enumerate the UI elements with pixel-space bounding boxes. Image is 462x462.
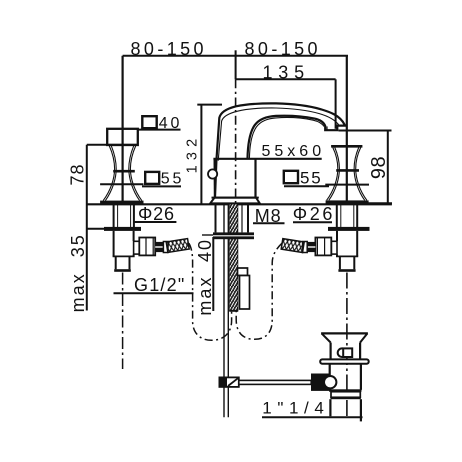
deck / counter top line [87, 203, 392, 205]
left valve hose nipple dark [155, 242, 163, 252]
left handle waist curve left inner [105, 146, 116, 201]
spout outlet inner wall [326, 126, 328, 130]
label square 55 left [145, 172, 159, 184]
right handle waist curve right outer [356, 148, 367, 201]
leader line under square55 left [142, 185, 181, 187]
drain neck walls [330, 343, 332, 360]
dim line max40 vertical [212, 237, 214, 311]
leader line under square40 [137, 129, 181, 131]
svg-text:132: 132 [185, 134, 201, 174]
extension line right handle center [346, 56, 348, 205]
spout group [208, 79, 345, 237]
drain tailpipe bottom / 1-1/4 underline [262, 416, 363, 418]
left valve shank outer walls [113, 204, 115, 227]
left handle cap [107, 129, 138, 145]
center column group below deck [202, 204, 254, 417]
leader line under square55 center [284, 185, 329, 187]
svg-text:78: 78 [68, 163, 88, 185]
right valve body walls [356, 231, 358, 257]
pop-up rod clamp [219, 377, 238, 387]
right valve hose nipple dark [307, 242, 315, 252]
label square 40 [142, 116, 156, 128]
drain tailpipe walls [329, 399, 331, 416]
right handle top bar [331, 145, 362, 148]
svg-text:G1/2": G1/2" [134, 275, 185, 295]
label square 55 center [284, 171, 298, 183]
left hose ferrule [163, 242, 168, 253]
left handle waist curve left outer [103, 146, 114, 201]
right valve body bottom step line [336, 255, 358, 257]
extension tick 135 right to spout tip [335, 79, 337, 129]
underline Phi26 right [293, 221, 332, 223]
dim tick max35 bottom (counter underside) [87, 228, 114, 230]
drain flange [320, 359, 369, 363]
extension line left handle center [121, 56, 123, 205]
dim line 78 + max35 vertical at left [86, 145, 88, 311]
spout base right edge [254, 159, 256, 198]
left valve body bottom step line [113, 255, 135, 257]
dim tick 78 top (handle cap bottom leader) [87, 144, 138, 146]
drain pivot square [343, 348, 352, 357]
right valve tail end band [338, 269, 355, 272]
right handle waist curve left inner [329, 148, 340, 201]
right valve shank thread lines [340, 204, 342, 227]
svg-text:80-150: 80-150 [245, 39, 321, 59]
drain funnel top [321, 332, 368, 334]
spout shank outer walls [215, 204, 217, 232]
right handle group [325, 146, 369, 204]
right valve lower tail walls [339, 256, 341, 269]
spout collar line / 55x60 underline [213, 158, 321, 160]
left valve shank thread lines [117, 204, 119, 227]
spout inner parallel line [218, 108, 338, 161]
dim tick 132 top [197, 104, 222, 106]
underline Phi26 left [134, 221, 177, 223]
svg-text:98: 98 [368, 156, 390, 179]
left handle waist curve right inner [129, 146, 140, 201]
svg-text:80-150: 80-150 [131, 39, 207, 59]
left valve center line below [122, 273, 124, 370]
washer tick extension [202, 234, 214, 236]
svg-text:55: 55 [161, 171, 184, 188]
svg-text:1"1/4: 1"1/4 [262, 398, 329, 417]
dim tick 98 bottom [368, 202, 392, 204]
svg-text:135: 135 [263, 63, 310, 83]
spout center line dash-dot [235, 79, 237, 237]
left handle skirt top line [100, 183, 143, 185]
drain narrow section [331, 392, 360, 398]
right valve shank outer walls [336, 204, 338, 227]
mounting nut tall block [240, 276, 250, 310]
svg-text:Φ26: Φ26 [138, 204, 175, 224]
dim line 98 vertical [387, 131, 389, 204]
right handle skirt top line [325, 184, 369, 186]
left valve group below deck [104, 204, 168, 369]
left hose path dash-dot curve [189, 243, 232, 340]
left handle group [100, 129, 143, 205]
svg-text:max 35: max 35 [68, 233, 88, 312]
right handle waist curve left outer [327, 148, 338, 201]
left valve tail end band [114, 269, 131, 272]
extension tick spout center [235, 50, 237, 79]
drain body walls [329, 364, 331, 390]
svg-text:55x60: 55x60 [262, 143, 326, 160]
drain funnel left slope [322, 333, 331, 342]
svg-text:max 40: max 40 [195, 238, 215, 316]
spout base left edge [214, 159, 216, 198]
spout under-arch second line [249, 118, 324, 159]
left handle base band [100, 201, 143, 205]
stud bottom cap [229, 310, 238, 312]
underline M8 [253, 222, 285, 224]
right hose ferrule [303, 242, 308, 253]
left valve escutcheon nut flange [104, 227, 141, 231]
drain funnel right slope [360, 333, 367, 342]
right valve union nut [315, 238, 331, 256]
drain body bottom band [329, 389, 362, 391]
horizontal lever rod [239, 380, 311, 384]
drain lever ball joint [324, 376, 336, 388]
mounting nut small block [238, 268, 248, 276]
svg-text:Φ26: Φ26 [293, 204, 335, 224]
M8 threaded stud hatched [230, 204, 238, 310]
pop-up drain group [262, 333, 369, 421]
dim tick 98 top [339, 130, 392, 132]
spout side button detail [208, 169, 217, 178]
right handle base band [326, 200, 369, 204]
right handle waist curve right inner [354, 148, 365, 201]
spout shank inner wall right [241, 204, 243, 232]
left valve body walls [113, 231, 115, 257]
left handle mid ring [113, 170, 135, 173]
right valve branch step [331, 241, 337, 254]
spout escutcheon [210, 198, 260, 204]
drain pivot ball [338, 348, 347, 357]
drain narrow bottom band [331, 397, 361, 399]
left handle waist curve right outer [130, 146, 141, 201]
dim line 135 [236, 78, 336, 80]
right flexible hose braided [281, 239, 304, 253]
right valve group below deck [303, 204, 370, 272]
dim line 132 vertical [200, 104, 202, 204]
spout outer profile [215, 103, 345, 197]
G1/2 underline [114, 292, 194, 294]
right hose path dash-dot curve [236, 243, 282, 339]
spout base bottom [212, 197, 259, 199]
right valve escutcheon nut flange [328, 227, 370, 231]
left valve branch step [134, 241, 140, 254]
left valve lower tail walls [115, 256, 117, 269]
svg-text:55: 55 [300, 169, 323, 188]
drain lever knob dark [311, 374, 330, 391]
pop-up rod pair upper [223, 204, 225, 417]
dim line 80-150 top [123, 55, 348, 57]
mounting washer bar [213, 232, 254, 239]
left valve union nut [139, 238, 155, 256]
right valve to drain center line [346, 273, 348, 417]
deck underside short line [87, 228, 112, 230]
right handle mid ring [336, 169, 359, 172]
left flexible hose braided [166, 239, 189, 253]
